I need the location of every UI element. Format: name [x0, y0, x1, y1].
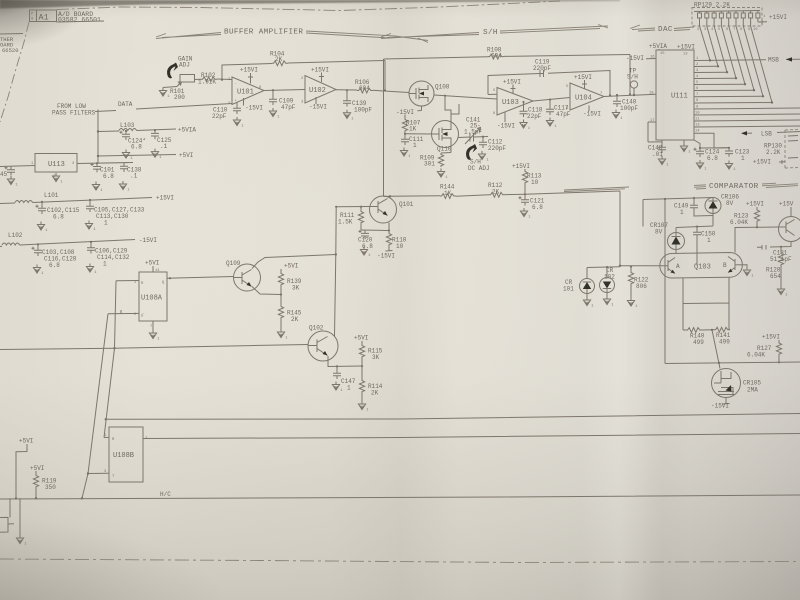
svg-text:+15VI: +15VI: [753, 159, 771, 166]
svg-text:C113,C130: C113,C130: [96, 213, 129, 220]
ground: [612, 110, 623, 122]
capacitor C121 6.8: [519, 194, 545, 211]
S/H DC adjustment flag (black): [466, 144, 477, 160]
svg-text:+5VI: +5VI: [179, 152, 193, 159]
resistor R123 6.04K: [730, 201, 779, 229]
svg-text:-15VI: -15VI: [497, 123, 515, 130]
potentiometer R101 200: [163, 75, 195, 102]
svg-text:6.04K: 6.04K: [730, 219, 748, 226]
wire U101 out to U102: [264, 90, 305, 91]
svg-text:DATA: DATA: [118, 101, 133, 108]
header COMPARATOR: [564, 183, 798, 192]
svg-text:1K: 1K: [409, 126, 417, 133]
svg-text:2MA: 2MA: [747, 387, 758, 394]
capacitor C124 6.8 (DAC): [694, 140, 730, 162]
ground: [33, 265, 44, 277]
fold shading: [330, 0, 460, 600]
wire U104 out to DAC: [604, 94, 656, 96]
svg-text:6.8: 6.8: [707, 155, 718, 162]
svg-text:Q101: Q101: [399, 201, 414, 208]
ground: [119, 181, 130, 193]
svg-text:U102: U102: [309, 87, 326, 95]
svg-text:CR105: CR105: [743, 380, 761, 387]
resistor R140 499: [683, 328, 705, 346]
svg-text:7: 7: [733, 28, 735, 32]
ground: [603, 296, 614, 308]
svg-text:47pF: 47pF: [556, 111, 571, 118]
svg-text:-15VI: -15VI: [626, 55, 644, 62]
svg-text:499: 499: [719, 339, 730, 346]
ground: [627, 298, 638, 310]
resistor R139 3K: [278, 263, 301, 306]
wire DATA: [95, 104, 232, 112]
wire R108 left leg down to Q101 collector: [383, 59, 385, 197]
svg-text:6.8: 6.8: [103, 173, 114, 180]
gate U108B: [104, 427, 148, 482]
sheet border dash-dot left diagonal: [0, 22, 29, 122]
svg-text:A: A: [676, 263, 680, 270]
ground under R101: [159, 88, 170, 100]
svg-text:1: 1: [104, 220, 108, 227]
gate U108A: [134, 272, 167, 329]
capacitor C105,C127,C133 / C113,C130 .1: [86, 199, 145, 227]
svg-text:+15VI: +15VI: [240, 67, 258, 74]
capacitor C150 1: [693, 226, 716, 266]
svg-text:BUFFER AMPLIFIER: BUFFER AMPLIFIER: [224, 29, 303, 37]
resistor R112 2K: [488, 182, 525, 197]
svg-text:220pF: 220pF: [488, 145, 506, 152]
resistor R111 1.5K: [338, 206, 364, 230]
svg-text:L102: L102: [8, 232, 23, 239]
ground: [583, 297, 594, 309]
ground: [151, 149, 162, 161]
capacitor C120 6.8: [358, 230, 373, 250]
transistor Q104 (right edge): [779, 201, 800, 242]
wire Q108 drain to U103 input: [434, 95, 497, 99]
svg-text:6.8: 6.8: [49, 262, 60, 269]
svg-text:+5VIA: +5VIA: [649, 43, 667, 50]
svg-text:S/H: S/H: [627, 74, 638, 81]
resistor R106 604: [355, 79, 409, 93]
svg-text:+15VI: +15VI: [503, 79, 521, 86]
svg-text:U111: U111: [671, 93, 688, 101]
ground: [277, 329, 288, 341]
resistor R127 6.04K: [747, 334, 782, 364]
node +15VI pin 13: [677, 44, 695, 57]
variable capacitor C141 25-1.5pF: [459, 117, 489, 145]
diode CR101: [563, 268, 595, 298]
ground: [85, 221, 96, 233]
svg-text:15: 15: [660, 52, 665, 56]
svg-text:14: 14: [695, 130, 700, 134]
capacitor C119 220pF loop: [488, 59, 611, 97]
svg-text:100pF: 100pF: [354, 107, 372, 114]
wire CR101 CR102 top rail: [587, 266, 620, 269]
svg-text:1: 1: [680, 209, 684, 216]
capacitor C149 1: [674, 197, 713, 216]
wire feedback to R104: [222, 64, 272, 80]
svg-text:+5VIA: +5VIA: [178, 127, 196, 134]
ground U108A pin 7: [152, 321, 154, 330]
svg-text:+15VI: +15VI: [762, 334, 780, 341]
svg-text:101: 101: [563, 286, 574, 293]
svg-text:H/C: H/C: [160, 491, 171, 498]
capacitor C1xx .45 at left edge: [0, 166, 15, 178]
title block A1: [30, 10, 105, 24]
adjustment flag (black): [167, 63, 178, 79]
svg-text:6.8: 6.8: [131, 144, 142, 151]
capacitor C109 47pF: [269, 89, 296, 111]
node +5VIA pin 15: [649, 43, 667, 56]
wire Q101 collector node to R144: [384, 195, 441, 198]
svg-text:10: 10: [753, 28, 758, 32]
wire comparator input vertical: [619, 191, 621, 266]
capacitor C110 22pF: [212, 102, 241, 120]
inductor L101 with +15VI rail: [0, 192, 174, 204]
transistor Q110 (FET): [432, 121, 459, 153]
node -15VI pin 16: [626, 55, 656, 62]
wire Q102 emitter: [328, 356, 362, 367]
svg-text:U101: U101: [237, 89, 254, 97]
DAC U111: [656, 50, 694, 140]
ground: [332, 382, 343, 394]
wire U108A R input: [116, 280, 139, 282]
svg-text:DC ADJ: DC ADJ: [468, 165, 490, 172]
svg-text:+5VI: +5VI: [145, 260, 159, 267]
svg-text:3K: 3K: [372, 354, 380, 361]
svg-text:1: 1: [103, 261, 107, 268]
svg-text:1: 1: [707, 237, 711, 244]
svg-text:806: 806: [636, 283, 647, 290]
svg-text:B: B: [723, 262, 727, 269]
svg-text:2.2K: 2.2K: [766, 149, 781, 156]
diagonals: [700, 26, 773, 103]
wire R140/R141 junction to CR105: [711, 329, 713, 331]
resistor R107 1K: [402, 115, 420, 133]
wire riser x98: [97, 110, 99, 164]
svg-text:301: 301: [424, 161, 435, 168]
transistor Q101: [370, 196, 414, 223]
transistor Q109: [226, 260, 261, 291]
op-amp U101: [228, 77, 264, 106]
note: other board: [0, 34, 23, 55]
resistor R144 1K: [440, 184, 489, 199]
svg-text:LSB: LSB: [761, 131, 772, 138]
ground pin under U111: [683, 140, 685, 143]
wire riser x336 (Q101 base to Q102): [335, 207, 337, 337]
op-amp U102: [301, 76, 336, 105]
svg-text:45: 45: [0, 171, 8, 178]
node +5VI upper left: [15, 438, 34, 500]
op-amp U103: [493, 88, 533, 117]
svg-text:22pF: 22pF: [527, 113, 542, 120]
ground: [86, 264, 97, 276]
svg-text:16: 16: [650, 56, 655, 60]
zener CR106 8V: [705, 194, 739, 214]
ground: [149, 330, 160, 342]
svg-text:1: 1: [413, 142, 417, 149]
ground: [696, 160, 707, 172]
ground: [122, 150, 133, 162]
ground: [343, 110, 354, 122]
wire CR107 to base rail: [675, 250, 677, 254]
capacitor C139 100pF: [343, 89, 372, 113]
svg-text:+5VI: +5VI: [284, 263, 298, 270]
header BUFFER AMPLIFIER: [156, 29, 428, 43]
wire Q109 emitter: [252, 287, 281, 295]
resistor R141 499: [702, 327, 731, 345]
svg-text:6.8: 6.8: [53, 214, 64, 221]
svg-text:Q110: Q110: [437, 146, 452, 153]
wire U108A output to Q109 base: [167, 277, 234, 279]
svg-text:2K: 2K: [371, 390, 379, 397]
ground: [546, 118, 557, 130]
node +5VI rail: [98, 152, 193, 159]
resistor R115 3K: [354, 335, 383, 367]
transistor Q102: [308, 325, 338, 362]
test point TP S/H: [627, 68, 638, 97]
LSB arrow: [741, 131, 747, 135]
svg-text:11: 11: [695, 118, 700, 122]
left edge fragment: [0, 498, 20, 535]
svg-text:L101: L101: [44, 192, 59, 199]
svg-text:L103: L103: [120, 122, 135, 129]
svg-text:-: -: [235, 82, 237, 86]
capacitor C103,C108 C116,C128 6.8: [32, 243, 77, 269]
ground: [437, 169, 448, 181]
transistor Q108 (FET): [409, 81, 450, 106]
pin 17 stub: [648, 121, 656, 123]
svg-text:350: 350: [45, 484, 56, 491]
svg-text:ADJ: ADJ: [179, 62, 190, 69]
current regulator CR105 2MA: [712, 369, 762, 405]
ground: [743, 267, 754, 279]
svg-text:.1: .1: [130, 173, 138, 180]
dual transistor Q103: [660, 253, 743, 279]
bit line 13 LSB: [694, 133, 729, 148]
capacitor C111 1: [401, 132, 424, 149]
svg-text:MSB: MSB: [768, 57, 779, 64]
svg-text:+15VI: +15VI: [746, 201, 764, 208]
wire U108A S input jog: [108, 310, 132, 314]
svg-text:6.8: 6.8: [532, 204, 543, 211]
svg-text:+15VI: +15VI: [156, 195, 174, 202]
wire top rail: [643, 198, 713, 227]
svg-text:S/H: S/H: [483, 29, 498, 37]
ground: [37, 222, 48, 234]
svg-text:22pF: 22pF: [212, 113, 227, 120]
ground: [358, 401, 369, 413]
capacitor C140 100pF: [613, 94, 638, 112]
resistor R145 2K: [278, 305, 301, 329]
svg-text:7: 7: [600, 92, 602, 96]
ground: [269, 108, 280, 120]
svg-text:.1: .1: [160, 143, 168, 150]
resistor R110 10: [386, 231, 407, 252]
svg-text:1: 1: [347, 385, 351, 392]
sheet border dash-dot bottom: [0, 559, 800, 563]
ground: [520, 208, 531, 220]
op-amp U104: [566, 83, 604, 111]
svg-text:Q108: Q108: [435, 84, 450, 91]
svg-text:-15VI: -15VI: [377, 253, 395, 260]
svg-text:17: 17: [650, 119, 655, 123]
wire long line y419: [106, 414, 800, 420]
wire R104 right leg down to U102 output node: [384, 61, 386, 91]
svg-text:-15VI: -15VI: [309, 104, 327, 111]
ground: [520, 120, 531, 132]
svg-text:+15VI: +15VI: [574, 74, 592, 81]
svg-text:1.5K: 1.5K: [338, 219, 353, 226]
svg-text:C114,C132: C114,C132: [97, 254, 130, 261]
bit lines 2-8: [694, 65, 718, 67]
ground: [360, 247, 371, 259]
svg-text:U103: U103: [502, 99, 519, 107]
bit lines 9-12 to right edge: [694, 108, 800, 109]
diode CR102: [600, 267, 616, 296]
ground: [478, 151, 489, 163]
inductor L102 with -15VI rail: [0, 232, 157, 247]
svg-text:+5VI: +5VI: [30, 465, 44, 472]
svg-text:10: 10: [695, 112, 700, 116]
svg-text:Q103: Q103: [694, 264, 711, 272]
ground: [92, 182, 103, 194]
wire Q103 emitters cross: [683, 277, 729, 330]
svg-text:+5VI: +5VI: [354, 335, 368, 342]
svg-text:+15VI: +15VI: [311, 67, 329, 74]
resistor R114 2K: [359, 365, 382, 401]
svg-text:13: 13: [683, 53, 688, 57]
svg-text:03582 66501: 03582 66501: [58, 17, 101, 24]
wire long rail y363: [665, 362, 800, 364]
ground: [233, 117, 244, 129]
capacitor C101 6.8: [91, 162, 115, 180]
svg-text:220pF: 220pF: [533, 65, 551, 72]
resistor pack RP130 2.2K: [753, 130, 800, 169]
bit line 1 MSB: [694, 59, 766, 62]
svg-text:PASS FILTERS: PASS FILTERS: [52, 110, 96, 117]
svg-text:-15VI: -15VI: [245, 105, 263, 112]
wire U108A to U108B slanted feed: [104, 281, 116, 438]
wire U108B output long line y438: [143, 434, 800, 439]
ground: [658, 156, 669, 168]
ground: [777, 286, 788, 298]
resistor R113 10: [512, 163, 542, 195]
DAC bit lines from U111 with diagonals to RP129: [694, 26, 800, 148]
svg-text:COMPARATOR: COMPARATOR: [709, 183, 759, 191]
ground left edge cap: [7, 176, 18, 188]
resistor pack RP129 2.2K: [692, 2, 787, 33]
svg-text:3K: 3K: [292, 285, 300, 292]
svg-text:10: 10: [531, 179, 539, 186]
ground: [400, 148, 411, 160]
resistor R102 1.91K: [195, 72, 233, 86]
header DAC: [630, 25, 694, 34]
capacitor C123 1: [725, 147, 750, 162]
wire comparator input: [525, 191, 620, 194]
svg-text:DAC: DAC: [658, 26, 673, 34]
svg-text:-15VI: -15VI: [711, 403, 729, 410]
svg-text:-15VI: -15VI: [139, 237, 157, 244]
wire Q101 emitter down: [361, 223, 389, 231]
ground under U113: [52, 173, 63, 185]
capacitor C148 .01: [648, 122, 666, 158]
capacitor C124 6.8: [120, 130, 147, 151]
capacitor C106,C129 C114,C132 1: [87, 241, 130, 268]
resistor R104 2K: [270, 51, 385, 66]
svg-text:8V: 8V: [655, 229, 663, 236]
zener CR107 8V: [650, 222, 685, 250]
wire H/C long line: [0, 495, 800, 499]
wire U103 out to U104: [533, 98, 570, 102]
wire second slanted feed: [82, 314, 108, 499]
wire CR106 bottom rail: [676, 214, 713, 228]
wire U102 out: [336, 89, 357, 91]
wire Q103 A base: [620, 265, 662, 267]
sheet border dash-dot top: [57, 1, 560, 11]
svg-text:51.1pF: 51.1pF: [770, 256, 792, 263]
wire left vertical x665: [664, 199, 666, 364]
svg-text:Q102: Q102: [309, 325, 324, 332]
svg-text:18: 18: [649, 92, 654, 96]
capacitor C138 .1: [120, 163, 142, 180]
capacitor C112 220pF: [479, 136, 506, 152]
svg-text:+15V: +15V: [779, 201, 794, 208]
capacitor C117 47pF: [546, 99, 571, 119]
svg-text:+5VI: +5VI: [19, 438, 33, 445]
svg-text:100pF: 100pF: [620, 105, 638, 112]
resistor R109 301: [420, 144, 451, 168]
svg-text:U113: U113: [48, 161, 65, 169]
node +5VI pin 14 U108A: [145, 260, 160, 274]
svg-text:10: 10: [396, 243, 404, 250]
header S/H: [381, 25, 608, 39]
svg-text:13: 13: [695, 124, 700, 128]
capacitor C131 51.1pF: [757, 242, 792, 264]
wire Q101 base: [336, 206, 370, 208]
ground: [16, 535, 27, 547]
resistor R128 654: [766, 246, 784, 286]
node +5VI R119: [30, 465, 57, 499]
node +5VIA rail: [98, 122, 196, 134]
svg-text:102: 102: [604, 274, 615, 281]
ground: [680, 143, 691, 155]
svg-text:6.04K: 6.04K: [747, 352, 765, 359]
resistor R122 806: [628, 266, 648, 298]
svg-text:+15VI: +15VI: [769, 14, 787, 21]
svg-text:U108B: U108B: [113, 452, 134, 460]
svg-text:+15VI: +15VI: [512, 163, 530, 170]
capacitor C125 .1: [151, 129, 172, 150]
wire Q109 collector to x336 riser: [252, 255, 336, 269]
svg-text:Q109: Q109: [226, 260, 241, 267]
svg-text:+15VI: +15VI: [677, 44, 695, 51]
svg-text:66520: 66520: [2, 47, 19, 54]
svg-text:A1: A1: [39, 13, 49, 23]
svg-text:2K: 2K: [291, 316, 299, 323]
wire R108 right leg down to U104 output: [629, 55, 631, 95]
svg-text:7: 7: [696, 93, 698, 97]
wire Q110 drain up to S/H bus: [445, 96, 459, 124]
wire Q110 gate from C111 node: [405, 133, 432, 135]
wire Q103 B collector to R123 node: [735, 227, 757, 252]
wire Q102 base rail: [0, 345, 308, 350]
ground: [725, 161, 736, 173]
capacitor C118 22pF: [520, 101, 543, 120]
svg-text:-15VI: -15VI: [583, 111, 601, 118]
capacitor C102,C115 6.8: [36, 201, 80, 221]
svg-text:654: 654: [770, 273, 781, 280]
